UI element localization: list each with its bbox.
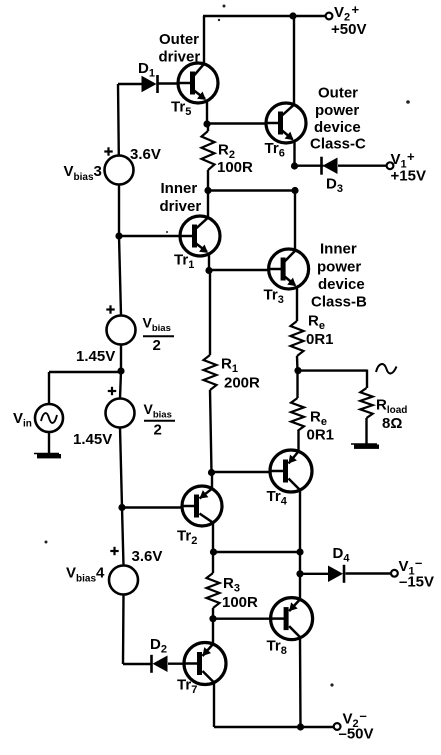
- svg-text:Vin: Vin: [13, 410, 32, 430]
- svg-text:200R: 200R: [224, 375, 260, 392]
- svg-text:driver: driver: [160, 198, 202, 215]
- svg-text:+15V: +15V: [391, 168, 426, 185]
- svg-text:3.6V: 3.6V: [130, 146, 161, 163]
- svg-text:device: device: [318, 276, 365, 293]
- svg-text:2: 2: [154, 422, 162, 439]
- svg-text:D1: D1: [138, 60, 155, 80]
- svg-text:R1: R1: [221, 356, 238, 376]
- svg-text:Tr7: Tr7: [177, 677, 197, 697]
- svg-text:driver: driver: [159, 49, 201, 66]
- svg-text:Inner: Inner: [320, 241, 357, 258]
- svg-text:–50V: –50V: [339, 726, 374, 743]
- svg-text:D4: D4: [333, 545, 351, 565]
- svg-text:Inner: Inner: [161, 180, 198, 197]
- svg-text:8Ω: 8Ω: [382, 415, 402, 432]
- svg-text:–: –: [360, 708, 367, 723]
- svg-text:1.45V: 1.45V: [76, 348, 115, 365]
- svg-text:3.6V: 3.6V: [132, 548, 163, 565]
- svg-text:D2: D2: [150, 636, 167, 656]
- svg-text:Rload: Rload: [376, 397, 407, 417]
- svg-text:100R: 100R: [222, 594, 258, 611]
- svg-text:power: power: [315, 102, 359, 119]
- svg-text:R3: R3: [223, 575, 240, 595]
- svg-text:2: 2: [153, 337, 161, 354]
- svg-text:Re: Re: [308, 313, 325, 333]
- svg-text:Class-C: Class-C: [310, 136, 366, 153]
- svg-text:Tr3: Tr3: [264, 287, 284, 307]
- svg-text:Re: Re: [310, 409, 327, 429]
- svg-text:0R1: 0R1: [306, 331, 334, 348]
- svg-text:+: +: [352, 2, 360, 17]
- svg-text:Class-B: Class-B: [311, 294, 367, 311]
- svg-text:device: device: [314, 119, 361, 136]
- svg-text:+50V: +50V: [331, 21, 366, 38]
- svg-text:Outer: Outer: [159, 31, 199, 48]
- svg-text:Tr2: Tr2: [177, 528, 197, 548]
- svg-text:–: –: [415, 555, 422, 570]
- svg-text:Vbias4: Vbias4: [66, 565, 105, 585]
- svg-text:power: power: [317, 259, 361, 276]
- svg-text:0R1: 0R1: [307, 427, 335, 444]
- svg-text:Tr8: Tr8: [267, 638, 287, 658]
- svg-text:1.45V: 1.45V: [73, 431, 112, 448]
- svg-text:–15V: –15V: [399, 574, 434, 591]
- svg-text:Vbias: Vbias: [143, 315, 171, 335]
- svg-text:Vbias3: Vbias3: [64, 163, 102, 183]
- svg-text:Vbias: Vbias: [144, 401, 172, 421]
- svg-text:+: +: [407, 149, 415, 164]
- svg-text:100R: 100R: [217, 159, 253, 176]
- svg-text:Outer: Outer: [318, 85, 358, 102]
- svg-text:D3: D3: [326, 176, 343, 196]
